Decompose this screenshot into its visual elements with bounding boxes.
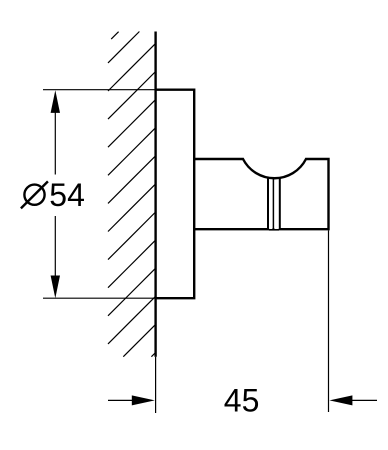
flange (wall plate, Ø54) [156, 90, 195, 299]
Ø54 dimension line upper segment [54, 110, 56, 175]
45 dimension right arrow [329, 395, 352, 405]
hook right edge extension line [328, 230, 330, 412]
hook waist contour line left [267, 177, 269, 229]
Ø54 bottom extension line [43, 297, 156, 299]
wall face extension line (below hatch, to 45 dimension) [155, 357, 157, 413]
45 dimension left arrow tail [108, 399, 132, 401]
hook waist contour line middle [272, 178, 274, 229]
Ø54 top extension line [43, 89, 156, 91]
hook waist contour line right [279, 177, 281, 229]
Ø54 label: diameter symbol circle [24, 185, 44, 205]
svg-text:54: 54 [49, 177, 85, 213]
Ø54 label: diameter symbol slash [21, 181, 48, 208]
waist bottom hidden edge segment [269, 229, 279, 231]
45 dimension left arrow [132, 395, 155, 405]
wall face line [154, 32, 156, 357]
hook body outline [194, 159, 328, 229]
wall hatching [108, 32, 156, 357]
waist bottom notch white gaps [269, 228, 279, 229]
Ø54 arrow up [51, 90, 60, 113]
svg-text:45: 45 [224, 383, 260, 419]
Ø54 arrow down [51, 276, 60, 299]
Ø54 dimension line lower segment [54, 216, 56, 278]
45 dimension right arrow tail [352, 399, 377, 401]
